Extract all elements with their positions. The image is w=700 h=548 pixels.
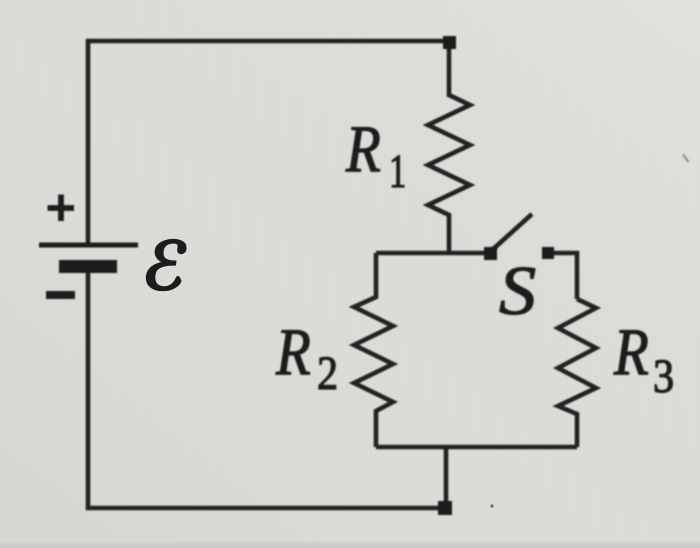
svg-text:3: 3 [653, 350, 674, 403]
battery positive plate (long thin) [39, 243, 138, 248]
svg-text:1: 1 [389, 146, 406, 199]
label - (battery negative) [46, 291, 75, 299]
label + (battery positive) [48, 195, 75, 222]
wire: switch right contact to R3 top [548, 253, 577, 299]
wire: bottom of parallel combination [376, 445, 577, 450]
resistor R2 (left parallel branch) [354, 253, 393, 447]
node A junction dot (top, R1 top) [443, 36, 456, 49]
wire: battery - terminal down left side and across bottom to node B [88, 266, 446, 508]
resistor R3 (right parallel branch) [558, 299, 596, 447]
svg-text:R: R [345, 113, 381, 186]
resistor R1 (between node A and middle wire) [428, 40, 470, 253]
node B junction dot (bottom) [438, 501, 452, 515]
junction dot: switch left contact [484, 247, 497, 260]
svg-text:S: S [499, 252, 536, 330]
svg-text:R: R [613, 316, 649, 389]
label EMF script-E [147, 240, 186, 290]
svg-text:R: R [275, 316, 311, 389]
wire: middle horizontal from R2 top to switch left contact [376, 251, 491, 256]
wire: middle vertical from parallel combination to node B [444, 447, 449, 508]
junction dot: switch right contact [542, 247, 554, 259]
wire: battery + terminal up left side and across top to node A [88, 41, 449, 246]
svg-text:2: 2 [317, 347, 338, 400]
battery negative plate (short thick) [59, 260, 117, 273]
switch S blade [491, 214, 532, 251]
